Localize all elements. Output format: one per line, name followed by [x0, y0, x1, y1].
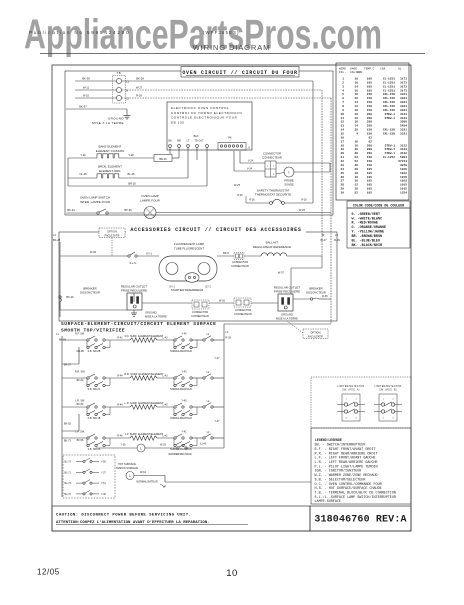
svg-text:27: 27 — [341, 180, 345, 183]
svg-text:BK-5: BK-5 — [223, 251, 229, 255]
end switch contact — [203, 400, 213, 408]
svg-text:16: 16 — [355, 81, 359, 84]
safety thermostat — [246, 198, 313, 204]
wire L1 vertical drop — [312, 81, 314, 203]
svg-text:INTER. LAMPE FOUR: INTER. LAMPE FOUR — [80, 200, 111, 204]
svg-text:12/05: 12/05 — [37, 568, 60, 577]
color code entries — [352, 212, 387, 248]
svg-text:W-11: W-11 — [83, 86, 90, 90]
svg-text:CXL-150: CXL-150 — [383, 109, 395, 112]
svg-text:WIRING DIAGRAM: WIRING DIAGRAM — [193, 43, 271, 52]
svg-text:CONNECTOR: CONNECTOR — [232, 261, 248, 264]
svg-text:COLOR CODE/CODE DE COULEUR: COLOR CODE/CODE DE COULEUR — [353, 203, 404, 207]
svg-text:200: 200 — [367, 113, 372, 116]
svg-text:LAMPE-SURFACE: LAMPE-SURFACE — [315, 500, 341, 504]
element L.F. SURF. ELEMENT/ELEMENT — [125, 432, 164, 440]
svg-text:GY-1: GY-1 — [146, 251, 152, 255]
svg-text:NORMALISATEUR: NORMALISATEUR — [136, 481, 158, 484]
svg-text:20: 20 — [355, 188, 359, 191]
svg-text:150: 150 — [367, 105, 372, 108]
element R.F. SURF. ELEMENT/ELEMENT — [125, 334, 164, 342]
wire lamp to connector — [217, 251, 234, 256]
svg-text:L: L — [129, 474, 131, 478]
svg-text:7: 7 — [342, 101, 344, 104]
svg-text:S.B. SW-1A: S.B. SW-1A — [88, 448, 101, 451]
svg-text:13: 13 — [341, 125, 345, 128]
svg-text:REGULATEUR REFERENCE: REGULATEUR REFERENCE — [253, 245, 291, 249]
svg-text:BK-60: BK-60 — [77, 379, 84, 382]
svg-text:Y-47: Y-47 — [214, 357, 220, 360]
svg-text:MISE A LA TERRE: MISE A LA TERRE — [92, 121, 124, 125]
svg-text:21: 21 — [341, 156, 345, 159]
svg-text:62: 62 — [369, 136, 373, 139]
svg-text:3321: 3321 — [400, 129, 407, 132]
svg-text:CL-1251: CL-1251 — [383, 89, 395, 92]
svg-text:T.B. - TERMINAL BLOCK/BLOC DE: T.B. - TERMINAL BLOCK/BLOC DE CONNECTION — [315, 490, 396, 495]
wire probe loop — [276, 163, 330, 174]
svg-text:4: 4 — [392, 417, 394, 419]
footer page 10 — [226, 568, 238, 579]
svg-text:105: 105 — [367, 191, 372, 194]
svg-text:W-36: W-36 — [90, 250, 97, 254]
svg-text:W-37: W-37 — [278, 271, 285, 275]
svg-text:TUBE FLUORESCENT: TUBE FLUORESCENT — [174, 246, 204, 250]
breaker (left) — [59, 286, 100, 302]
svg-text:3123: 3123 — [400, 148, 407, 151]
svg-text:16: 16 — [355, 109, 359, 112]
svg-text:WARMER/RECHAUD: WARMER/RECHAUD — [168, 453, 192, 456]
svg-text:BK-59: BK-59 — [77, 403, 84, 406]
hot surface label — [116, 463, 139, 470]
svg-text:16: 16 — [355, 97, 359, 100]
wire BK-38 to L1 — [75, 77, 116, 81]
wire BR-26 — [68, 148, 207, 187]
svg-text:4: 4 — [355, 417, 357, 419]
svg-text:BL-72: BL-72 — [65, 493, 72, 496]
svg-text:14: 14 — [355, 101, 359, 104]
warmer zone pilot wire — [96, 444, 137, 448]
wire W-37 — [278, 256, 322, 294]
wire row feed — [62, 339, 87, 341]
svg-text:16: 16 — [355, 180, 359, 183]
svg-text:T.B.: T.B. — [117, 71, 122, 75]
ballast coil — [244, 253, 322, 256]
svg-text:CXL-150: CXL-150 — [383, 129, 395, 132]
svg-text:FACULTATIF: FACULTATIF — [105, 233, 120, 237]
switch label BK-60 — [77, 379, 84, 382]
svg-text:Y-51: Y-51 — [101, 482, 106, 485]
svg-text:W-20: W-20 — [219, 299, 226, 302]
wire R-41 — [110, 336, 130, 340]
svg-text:10: 10 — [226, 568, 238, 579]
wire row out — [213, 437, 224, 439]
svg-text:3050: 3050 — [400, 121, 407, 124]
svg-text:3123: 3123 — [400, 117, 407, 120]
svg-text:(L)-40: (L)-40 — [200, 443, 207, 446]
svg-text:CONTROL DC HORNO ELECTRONICO: CONTROL DC HORNO ELECTRONICO — [171, 111, 242, 115]
warmer zone label — [168, 453, 192, 456]
svg-text:PROBE: PROBE — [284, 179, 294, 183]
svg-text:V-34: V-34 — [247, 167, 253, 170]
svg-text:R-46: R-46 — [117, 403, 123, 406]
svg-text:BR-26: BR-26 — [128, 181, 136, 185]
svg-text:TD OUT: TD OUT — [194, 140, 204, 143]
svg-text:BK-37: BK-37 — [79, 105, 87, 109]
svg-text:3321: 3321 — [400, 93, 407, 96]
svg-text:CXL-150: CXL-150 — [383, 133, 395, 136]
connector pair (right) — [234, 298, 252, 316]
svg-text:W-35: W-35 — [160, 444, 167, 447]
svg-text:52: 52 — [355, 156, 359, 159]
svg-text:CONTROLE ELECTRONIQUE FOUR: CONTROLE ELECTRONIQUE FOUR — [171, 116, 238, 120]
svg-text:S.B. SW-2B: S.B. SW-2B — [88, 350, 101, 353]
svg-text:5094: 5094 — [400, 156, 407, 159]
boxed label BR-25 — [154, 148, 179, 162]
surface lamp switch S.L.S. — [128, 251, 159, 265]
svg-text:Y-35: Y-35 — [120, 444, 126, 447]
wire hot surface — [134, 476, 311, 483]
svg-text:MISE A LA TERRE: MISE A LA TERRE — [276, 317, 298, 321]
hot surface pilot light — [126, 471, 147, 480]
safety thermostat label — [255, 189, 291, 197]
svg-text:W-25: W-25 — [234, 184, 241, 187]
wire node R-25 — [237, 194, 246, 203]
wire to left outlet — [60, 254, 134, 310]
svg-text:105: 105 — [367, 168, 372, 171]
lamp switch BL-74 — [65, 480, 107, 485]
svg-text:CL-1251: CL-1251 — [383, 81, 395, 84]
svg-text:105: 105 — [367, 188, 372, 191]
svg-text:Y-43: Y-43 — [181, 371, 187, 374]
probe sonde — [284, 167, 294, 186]
svg-text:BR-25: BR-25 — [159, 157, 167, 161]
svg-text:BK-34: BK-34 — [67, 208, 75, 212]
legend entries — [315, 443, 396, 505]
svg-text:L2: L2 — [207, 371, 210, 374]
EOC connector J1 — [218, 143, 251, 151]
lamp switch BL-73 — [65, 458, 107, 463]
svg-text:BR. -BROWN/BRUN: BR. -BROWN/BRUN — [352, 234, 383, 239]
title WIRING DIAGRAM — [193, 43, 271, 52]
svg-text:CL-1251: CL-1251 — [383, 78, 395, 81]
svg-text:12: 12 — [341, 121, 345, 124]
svg-text:CONNECTEUR: CONNECTEUR — [231, 265, 249, 268]
svg-text:L2: L2 — [126, 96, 129, 100]
part number 318046760 REV:A — [314, 515, 406, 526]
svg-text:STEW-1: STEW-1 — [385, 113, 396, 116]
legend box — [311, 428, 411, 504]
svg-text:1: 1 — [342, 78, 344, 81]
accessories title — [126, 225, 306, 234]
svg-text:SURFACE-ELEMENT-CIRCUIT/CIRCUI: SURFACE-ELEMENT-CIRCUIT/CIRCUIT ELEMENT … — [61, 321, 216, 327]
svg-text:W-25: W-25 — [299, 208, 306, 212]
pilot light P.L. — [137, 444, 145, 452]
svg-text:Y-37: Y-37 — [101, 471, 106, 474]
footer date 12/05 — [37, 568, 60, 577]
connector (probe) label — [262, 152, 282, 160]
svg-text:150: 150 — [367, 109, 372, 112]
svg-text:ELEMENT GRIL: ELEMENT GRIL — [99, 169, 121, 173]
svg-text:SW. (POS. B): SW. (POS. B) — [379, 389, 397, 391]
svg-text:18: 18 — [341, 144, 345, 147]
wire L2 vertical drop — [330, 98, 332, 324]
svg-text:16: 16 — [355, 93, 359, 96]
svg-text:16: 16 — [341, 136, 345, 139]
svg-text:W. -WHITE/BLANC: W. -WHITE/BLANC — [352, 216, 383, 221]
svg-text:BLD: BLD — [194, 135, 199, 138]
wire row feed — [62, 406, 87, 408]
svg-text:16: 16 — [355, 89, 359, 92]
svg-text:OPTION: OPTION — [107, 229, 117, 233]
svg-text:3321: 3321 — [400, 109, 407, 112]
svg-text:200: 200 — [367, 144, 372, 147]
svg-text:BL-25: BL-25 — [128, 172, 135, 176]
svg-text:105: 105 — [367, 89, 372, 92]
svg-text:W-27: W-27 — [136, 86, 143, 90]
svg-text:4: 4 — [342, 89, 344, 92]
ground (left outlet) — [131, 311, 167, 319]
surface left bus L1 — [56, 333, 67, 497]
svg-text:3123: 3123 — [400, 113, 407, 116]
regular outlet right label — [274, 285, 300, 293]
oven circuit box — [65, 71, 333, 215]
svg-text:R.R. SW.: R.R. SW. — [75, 371, 86, 374]
svg-text:UL: UL — [398, 68, 402, 71]
svg-text:BL-71: BL-71 — [65, 471, 72, 474]
svg-text:SONDE: SONDE — [284, 182, 294, 186]
svg-text:3: 3 — [382, 417, 384, 419]
svg-text:LAMPE FOUR: LAMPE FOUR — [140, 198, 160, 202]
svg-text:L-42: L-42 — [162, 434, 168, 437]
svg-text:R-26: R-26 — [249, 198, 255, 201]
svg-text:GROUND: GROUND — [145, 311, 157, 315]
wire L1 bus accessories — [59, 242, 61, 317]
wire gauge table box — [336, 63, 409, 200]
wire to end contact — [192, 339, 203, 341]
svg-text:W: W — [322, 233, 325, 237]
svg-text:SW. - SWITCH/INTERRUPTEUR: SW. - SWITCH/INTERRUPTEUR — [315, 443, 366, 448]
ground (right outlet) — [276, 313, 298, 321]
svg-text:Y-45: Y-45 — [181, 400, 187, 403]
svg-text:GAGE: GAGE — [350, 68, 357, 71]
switch L.R. SW. — [75, 400, 110, 421]
svg-text:CONNECTOR: CONNECTOR — [192, 311, 208, 314]
svg-text:3122: 3122 — [400, 144, 407, 147]
svg-text:16: 16 — [355, 78, 359, 81]
svg-text:16: 16 — [355, 117, 359, 120]
svg-text:ACCESSORIES CIRCUIT // CIRCUIT: ACCESSORIES CIRCUIT // CIRCUIT DES ACCES… — [130, 227, 301, 233]
broil element resistor — [68, 172, 188, 178]
switch Y-40 — [170, 333, 197, 354]
svg-text:1: 1 — [345, 399, 347, 401]
svg-text:R-26: R-26 — [301, 198, 307, 201]
bus label Y-47 (top) — [214, 357, 220, 360]
svg-text:150: 150 — [367, 133, 372, 136]
wire row out — [213, 406, 224, 408]
svg-text:N: N — [126, 88, 128, 92]
svg-text:S.B. - SELECTOR/SELECTEUR: S.B. - SELECTOR/SELECTEUR — [315, 477, 366, 482]
wire row out — [213, 377, 224, 379]
svg-text:20: 20 — [355, 164, 359, 167]
limiter diagram A — [337, 386, 365, 421]
svg-text:L: L — [140, 447, 142, 451]
svg-text:SW. (POS. A): SW. (POS. A) — [342, 388, 360, 391]
svg-text:L.R. SURF. ELEMENT/ELEMENT: L.R. SURF. ELEMENT/ELEMENT — [125, 401, 164, 405]
svg-text:Y. -YELLOW/JAUNE: Y. -YELLOW/JAUNE — [352, 230, 385, 235]
node L1 BK-28 — [53, 233, 61, 242]
bake element resistor — [68, 153, 154, 158]
node L3 R-29 label — [334, 233, 340, 242]
wire W-35 — [145, 444, 177, 448]
node W-27 label — [320, 233, 327, 242]
switch R.F. SW. — [75, 333, 110, 354]
legend title — [315, 438, 342, 442]
wire accessories mid — [142, 299, 234, 303]
wire N vertical drop — [321, 90, 323, 256]
svg-text:1015: 1015 — [400, 180, 407, 183]
color code list box — [347, 208, 410, 248]
svg-text:200: 200 — [367, 148, 372, 151]
end switch contact — [203, 431, 213, 439]
wire W-27 from N — [122, 86, 322, 90]
oven lamp switch label — [80, 196, 111, 204]
caution box — [52, 506, 310, 531]
svg-text:150: 150 — [367, 97, 372, 100]
svg-text:150: 150 — [367, 160, 372, 163]
wire to end contact — [192, 377, 203, 379]
svg-text:16: 16 — [355, 144, 359, 147]
ballast label — [253, 241, 291, 249]
svg-text:200: 200 — [367, 152, 372, 155]
svg-text:BK-26: BK-26 — [66, 295, 74, 299]
svg-text:S.B. SW-1B: S.B. SW-1B — [88, 417, 101, 420]
svg-text:CONNECTEUR: CONNECTEUR — [191, 315, 209, 318]
svg-text:Y-47: Y-47 — [214, 420, 220, 423]
svg-text:5454: 5454 — [400, 125, 407, 128]
svg-text:Y-40: Y-40 — [181, 333, 187, 336]
switch label BK-58 — [77, 439, 84, 442]
wire R-48 — [110, 434, 130, 438]
svg-text:16: 16 — [355, 176, 359, 179]
svg-text:FACULTATIF: FACULTATIF — [308, 334, 323, 338]
svg-text:BL-73: BL-73 — [65, 461, 72, 464]
svg-text:CXL-150: CXL-150 — [383, 97, 395, 100]
svg-text:L2: L2 — [207, 431, 210, 434]
svg-text:BK. -BLACK/NOIR: BK. -BLACK/NOIR — [352, 243, 383, 248]
element R.R. SURF. ELEMENT/ELEMENT — [124, 372, 164, 380]
svg-text:OL-25: OL-25 — [79, 172, 87, 176]
svg-text:150: 150 — [367, 101, 372, 104]
svg-text:19: 19 — [341, 148, 345, 151]
svg-text:BK-58: BK-58 — [77, 439, 84, 442]
svg-text:5: 5 — [342, 93, 344, 96]
svg-text:3173: 3173 — [400, 89, 407, 92]
svg-text:MISE A LA TERRE: MISE A LA TERRE — [145, 315, 167, 319]
svg-text:17: 17 — [341, 140, 345, 143]
svg-text:1015: 1015 — [400, 188, 407, 191]
wire L-43 — [157, 374, 174, 378]
svg-text:3173: 3173 — [400, 85, 407, 88]
svg-text:4: 4 — [356, 133, 358, 136]
svg-text:CXL-150: CXL-150 — [383, 93, 395, 96]
limiter switch box — [311, 377, 411, 428]
wire V-34 — [234, 151, 265, 171]
svg-text:30: 30 — [341, 191, 345, 194]
svg-text:150: 150 — [367, 129, 372, 132]
switch L.F. SW. — [75, 431, 110, 452]
svg-text:L.R. - LEFT REAR/ARRIERE GAUCH: L.R. - LEFT REAR/ARRIERE GAUCHE — [315, 460, 378, 465]
svg-text:BK-28: BK-28 — [136, 77, 144, 81]
svg-text:150: 150 — [367, 93, 372, 96]
oven lamp — [144, 207, 331, 219]
part number box — [310, 506, 411, 531]
svg-text:NORMAL/RECHAUD: NORMAL/RECHAUD — [170, 417, 192, 420]
svg-text:NORMAL/RECHAUD: NORMAL/RECHAUD — [170, 388, 192, 391]
svg-text:105: 105 — [367, 85, 372, 88]
svg-text:L1: L1 — [56, 333, 59, 336]
end switch contact — [203, 371, 213, 379]
svg-text:L1: L1 — [126, 79, 129, 83]
wire bake-broil left vertical — [68, 148, 170, 187]
svg-text:R.F. SURF. ELEMENT/ELEMENT: R.F. SURF. ELEMENT/ELEMENT — [125, 334, 164, 338]
svg-text:57214: 57214 — [398, 160, 407, 163]
svg-text:CL-1252: CL-1252 — [383, 156, 395, 159]
svg-text:10: 10 — [341, 113, 345, 116]
wire R-44 — [110, 374, 130, 378]
svg-text:1015: 1015 — [400, 184, 407, 187]
svg-text:3321: 3321 — [400, 133, 407, 136]
svg-text:L-40: L-40 — [162, 336, 168, 339]
svg-text:52: 52 — [355, 191, 359, 194]
svg-text:1: 1 — [382, 399, 384, 401]
svg-text:R-29: R-29 — [226, 336, 232, 339]
svg-text:2: 2 — [392, 399, 394, 401]
svg-text:20: 20 — [341, 152, 345, 155]
wire W-36 with lamp switch — [60, 250, 128, 256]
svg-text:150: 150 — [367, 164, 372, 167]
svg-text:R-48: R-48 — [117, 434, 123, 437]
wire broil to EOC pin — [187, 148, 189, 179]
svg-text:BK-55: BK-55 — [64, 423, 72, 426]
svg-text:S.L./L.-SURFACE LAMP SWITCH/IN: S.L./L.-SURFACE LAMP SWITCH/INTERRUPTEUR — [315, 495, 396, 500]
oven circuit title box — [181, 67, 299, 78]
svg-text:TEMOIN SURFACE: TEMOIN SURFACE — [116, 467, 139, 470]
switch Y-43 — [170, 371, 197, 392]
svg-text:(WFF365ES): (WFF365ES) — [203, 30, 240, 35]
svg-text:3: 3 — [345, 417, 347, 419]
svg-text:DISJONCTEUR: DISJONCTEUR — [306, 290, 326, 294]
svg-text:L-45: L-45 — [162, 403, 168, 406]
svg-text:BL. -BLUE/BLEU: BL. -BLUE/BLEU — [352, 239, 381, 244]
svg-text:LT: LT — [187, 140, 190, 143]
watermark AppliancePartsPros.com — [24, 11, 382, 58]
svg-text:DISJONCTEUR: DISJONCTEUR — [80, 290, 100, 294]
svg-text:105: 105 — [367, 176, 372, 179]
svg-text:200: 200 — [367, 121, 372, 124]
diagram outer border — [52, 65, 411, 531]
switch Y-45 — [170, 400, 197, 421]
surface right bus — [224, 331, 232, 448]
svg-text:V-24: V-24 — [248, 159, 254, 162]
svg-text:W-62: W-62 — [140, 471, 147, 474]
svg-text:LIMITER/DETECTOR: LIMITER/DETECTOR — [337, 386, 364, 388]
wire R-46 — [110, 403, 130, 407]
lamp switch BL-71 — [65, 469, 107, 474]
svg-text:20: 20 — [355, 152, 359, 155]
bake element label — [96, 145, 125, 153]
svg-text:IGN. - IGNITOR/IGNITEUR: IGN. - IGNITOR/IGNITEUR — [315, 469, 362, 474]
terminal block T.B. — [113, 71, 126, 103]
